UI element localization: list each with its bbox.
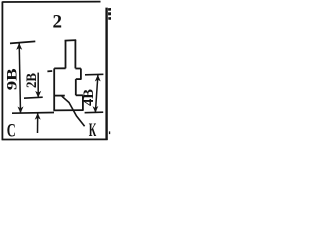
- chimney right edge: [74, 40, 76, 68]
- staircase step down 2: [75, 79, 77, 95]
- barrier shoulder right: [75, 68, 81, 70]
- svg-text:4В: 4В: [81, 89, 97, 106]
- dim 9V shaft: [19, 43, 20, 112]
- dim 4V shaft: [95, 75, 98, 112]
- baseline left segment: [12, 112, 54, 115]
- dim 2V lower shaft: [37, 113, 39, 133]
- dim 4V bottom arrowhead (down): [93, 106, 99, 113]
- frame left border: [1, 2, 3, 141]
- staircase step down 1: [80, 69, 82, 80]
- svg-text:К: К: [89, 120, 97, 141]
- dim 2V upper extension tick: [24, 97, 43, 98]
- speck outside right border bottom: [109, 131, 110, 134]
- shoulder extension dash: [47, 70, 52, 72]
- frame bottom border: [2, 138, 108, 140]
- staircase step down 3: [82, 95, 84, 110]
- staircase step right: [76, 94, 83, 96]
- chimney top edge: [65, 39, 77, 42]
- specks outside right border top: [108, 8, 111, 11]
- dim 4V top arrowhead (up): [95, 75, 101, 82]
- svg-text:С: С: [7, 121, 16, 142]
- dim 2V upper shaft: [37, 73, 39, 97]
- dim 9V top tick: [10, 41, 35, 43]
- frame top border: [2, 1, 100, 3]
- barrier shoulder left: [54, 67, 65, 69]
- dim 2V up arrowhead below baseline: [35, 113, 41, 120]
- barrier outline bottom edge: [53, 109, 83, 111]
- staircase step left: [76, 78, 82, 80]
- dim 4V bottom tick: [85, 111, 104, 114]
- dim 9V top arrowhead (up): [16, 43, 22, 50]
- svg-text:9В: 9В: [5, 68, 21, 90]
- svg-text:2: 2: [53, 12, 63, 33]
- dim 4V top tick: [85, 73, 103, 76]
- svg-text:2В: 2В: [24, 73, 40, 88]
- frame right border: [105, 8, 107, 140]
- chimney left edge: [65, 40, 67, 68]
- barrier outline left wall: [53, 68, 55, 110]
- dim 2V down arrowhead at tick: [35, 91, 41, 98]
- dim 9V bottom arrowhead (down): [18, 106, 24, 113]
- internal level line: [54, 95, 65, 97]
- leader diagonal to K: [62, 96, 85, 126]
